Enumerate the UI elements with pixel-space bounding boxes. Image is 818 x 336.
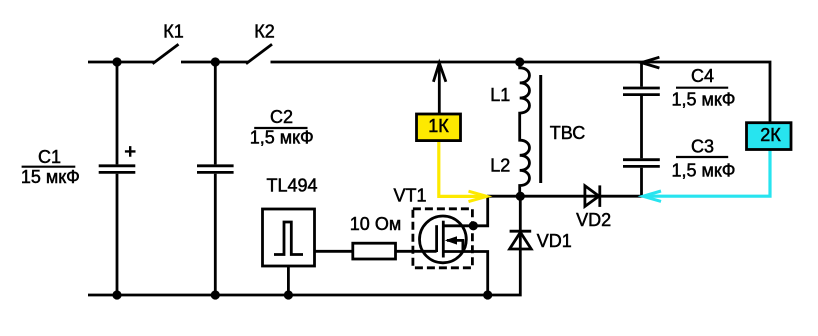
svg-text:1,5 мкФ: 1,5 мкФ <box>672 90 736 110</box>
svg-text:С2: С2 <box>270 107 293 127</box>
svg-text:С4: С4 <box>691 66 714 86</box>
svg-text:К2: К2 <box>254 22 275 42</box>
svg-text:2К: 2К <box>760 125 781 145</box>
svg-text:К1: К1 <box>163 22 184 42</box>
svg-text:L1: L1 <box>490 85 510 105</box>
svg-text:VD1: VD1 <box>537 231 572 251</box>
svg-text:15 мкФ: 15 мкФ <box>21 167 80 187</box>
svg-text:1,5 мкФ: 1,5 мкФ <box>672 160 736 180</box>
svg-text:10 Ом: 10 Ом <box>350 214 401 234</box>
svg-text:VD2: VD2 <box>576 210 611 230</box>
svg-text:С1: С1 <box>38 147 61 167</box>
svg-text:VT1: VT1 <box>393 185 426 205</box>
svg-text:1,5 мкФ: 1,5 мкФ <box>250 128 314 148</box>
svg-text:ТВС: ТВС <box>550 123 585 143</box>
svg-text:1К: 1К <box>428 116 449 136</box>
svg-text:С3: С3 <box>691 136 714 156</box>
svg-text:TL494: TL494 <box>266 176 317 196</box>
svg-text:L2: L2 <box>490 156 510 176</box>
